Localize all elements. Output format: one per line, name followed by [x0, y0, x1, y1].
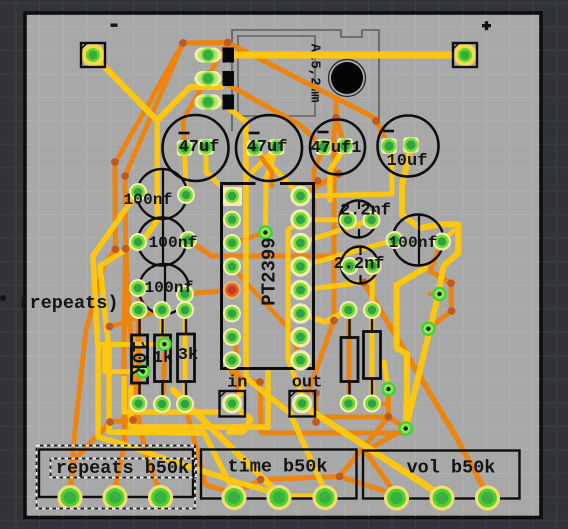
- wire orange inside IC pin4-pin9: [232, 267, 301, 361]
- potentiometer VR3 pad 3: [475, 485, 500, 510]
- junction: [314, 177, 322, 185]
- resistor R1 pad bottom: [130, 395, 148, 413]
- IC U1 pin 15: [290, 209, 311, 230]
- svg-text:100nf: 100nf: [148, 234, 197, 252]
- minus label: [111, 24, 118, 27]
- svg-text:47uf: 47uf: [179, 138, 220, 157]
- wire yellow C3 pad2 down: [330, 147, 345, 200]
- capacitor F1 (100nf) body: [137, 169, 187, 219]
- junction: [335, 170, 343, 178]
- wire yellow jack pin1 to + pad: [208, 52, 465, 59]
- junction: [121, 172, 129, 180]
- resistor R3 pad bottom: [176, 395, 194, 413]
- IC U1 pin 1: [223, 187, 241, 205]
- potentiometer VR1 pad 3: [148, 485, 173, 510]
- wire yellow to via on R1: [105, 345, 143, 372]
- resistor R1 pad top: [130, 301, 148, 319]
- junction: [224, 39, 232, 47]
- junction: [112, 246, 120, 254]
- wire yellow out pad to vol pad 2: [302, 405, 442, 496]
- C1 47uf pad -: [177, 140, 193, 156]
- junction: [336, 473, 344, 481]
- via A: [432, 287, 447, 302]
- via on R2: [157, 337, 172, 352]
- svg-text:47uf: 47uf: [247, 138, 288, 157]
- IC U1 pin 9: [290, 350, 311, 371]
- junction: [448, 307, 456, 315]
- junction: [106, 418, 114, 426]
- svg-text:10uf: 10uf: [387, 152, 428, 171]
- junction: [332, 114, 340, 122]
- wire yellow under R5: [370, 310, 375, 404]
- svg-text:PT2399: PT2399: [259, 237, 281, 305]
- potentiometer VR2 pad 1: [221, 485, 246, 510]
- IC U1 pin 7: [223, 328, 241, 346]
- DC jack pad 2: [195, 71, 222, 86]
- wire yellow to time pad 3: [246, 378, 325, 491]
- resistor R2 leads: [161, 310, 163, 335]
- svg-text:vol b50k: vol b50k: [407, 458, 496, 479]
- wire yellow IC pin15 to Z1 pad1: [301, 217, 349, 223]
- wire yellow 10uf loop around F4 to via D: [402, 147, 458, 429]
- C3 47uf pad +: [337, 138, 353, 154]
- wire orange jack to 10uf C4: [228, 43, 389, 148]
- resistor R5 leads: [371, 310, 373, 332]
- wire orange IC pin16 up right: [301, 174, 339, 196]
- resistor R5 pad top: [363, 301, 381, 319]
- wire yellow IC pin13 to F4 pad1: [301, 240, 395, 267]
- op-amp / IC U1 PT2399 outline: [222, 184, 314, 369]
- svg-text:2.2nf: 2.2nf: [340, 202, 391, 221]
- svg-text:47uf1: 47uf1: [310, 139, 361, 158]
- resistor R3 leads: [185, 310, 187, 334]
- capacitor C2 (47uf) body: [236, 115, 302, 181]
- wire yellow F4 stub: [442, 231, 453, 242]
- capacitor C1 (47uf) body: [163, 115, 229, 181]
- F2 100nf pad 2: [179, 231, 197, 249]
- junction: [312, 389, 320, 397]
- wire yellow C1 to IC pin1: [206, 148, 232, 196]
- via C: [381, 382, 396, 397]
- svg-text:100nf: 100nf: [144, 279, 193, 297]
- resistor R2 body: [155, 335, 171, 382]
- via on R1: [136, 364, 151, 379]
- DC jack barrel hole: [329, 60, 366, 97]
- selection marquee around VR1: [37, 446, 197, 509]
- junction: [111, 158, 119, 166]
- IC U1 pin 4: [223, 258, 241, 276]
- capacitor F4 pad 1: [386, 231, 404, 249]
- resistor R5 pad bottom: [363, 395, 381, 413]
- wire orange stub to via A: [430, 292, 440, 297]
- wire yellow C2 pad2 join vertical: [248, 148, 277, 176]
- wire yellow jack pin2 to - pad: [93, 55, 221, 121]
- wire orange left bus 2 to repeats pad 2: [115, 43, 183, 494]
- resistor R3 body: [178, 334, 195, 382]
- IC U1 pin 8: [223, 351, 241, 369]
- wire yellow to 100nf F2: [138, 121, 158, 243]
- wire orange stub right of out pad: [314, 393, 319, 422]
- svg-text:10k: 10k: [127, 341, 149, 375]
- wire yellow F1 left bus to time pad 2: [93, 192, 279, 495]
- IC U1 pin 3: [223, 234, 241, 252]
- wire yellow IC pin14 to Z1 pad2: [301, 220, 372, 243]
- capacitor Z1 pad 1: [339, 211, 357, 229]
- svg-text:3k: 3k: [178, 346, 198, 365]
- junction: [447, 279, 455, 287]
- wire yellow to time pad 2: [173, 390, 279, 494]
- junction: [257, 476, 265, 484]
- svg-text:time b50k: time b50k: [228, 457, 328, 478]
- svg-text:repeats b50k: repeats b50k: [56, 458, 189, 479]
- resistor R4 leads: [348, 310, 350, 338]
- wire orange C2 stub into IC: [255, 148, 273, 186]
- wire yellow to via on R2: [100, 342, 164, 347]
- plus label: [482, 24, 491, 27]
- wire yellow C2 pad1 to IC pin16: [255, 148, 301, 196]
- via B: [421, 321, 436, 336]
- wire yellow IC pin12 right: [301, 282, 364, 290]
- wire orange left bus 3 to repeats pad 3: [126, 249, 161, 494]
- wire orange junction down to time: [340, 417, 389, 477]
- svg-text:100nf: 100nf: [388, 234, 437, 252]
- wire yellow under R3: [183, 310, 188, 404]
- F1 100nf pad 1: [129, 183, 147, 201]
- F1 100nf pad 2: [177, 186, 195, 204]
- wire yellow Z2 pad2 to R5: [370, 266, 376, 310]
- wire orange via C to via D: [389, 389, 406, 429]
- IC U1 pin 12: [290, 280, 311, 301]
- C3 47uf pad -: [316, 139, 332, 155]
- F2 100nf pad 1: [129, 233, 147, 251]
- potentiometer VR3 pad 1: [384, 485, 409, 510]
- wire orange to vol pad 3: [364, 282, 488, 495]
- wire yellow under R2 top: [160, 306, 165, 346]
- DC jack pin 1: [223, 48, 235, 63]
- resistor R1 body: [132, 335, 148, 383]
- wire orange to time pad 1: [234, 480, 261, 494]
- wire yellow staircase to via D: [397, 268, 425, 429]
- wire yellow C1 to F1: [185, 148, 187, 193]
- potentiometer VR2 pad 2: [266, 485, 291, 510]
- wire yellow in pad elbow: [229, 406, 251, 432]
- wire orange top run: [183, 40, 228, 46]
- capacitor F2 (100nf) body: [138, 218, 186, 266]
- pad - supply: [82, 44, 105, 67]
- capacitor Z1 (2.2nf) body: [340, 201, 377, 238]
- F3 100nf pad 1: [129, 279, 147, 297]
- wire orange R5 pad to via C column: [372, 401, 389, 406]
- junction: [256, 378, 264, 386]
- C4 10uf pad -: [381, 138, 397, 154]
- junction: [372, 117, 380, 125]
- DC jack pad 3: [195, 95, 222, 110]
- wire orange IC pin8 to via D: [232, 360, 406, 433]
- resistor R3 pad top: [176, 301, 194, 319]
- wire orange left bus 1 to repeats pad 1: [70, 43, 183, 494]
- capacitor F3 (100nf) body: [139, 264, 189, 314]
- IC U1 pin1 marker: [223, 187, 242, 206]
- capacitor Z2 pad 2: [364, 257, 382, 275]
- IC U1 pin 13: [290, 256, 311, 277]
- resistor R4 body: [341, 338, 358, 382]
- C2 47uf pad +: [269, 139, 285, 155]
- wire orange long vertical to out pad: [306, 118, 336, 398]
- wire orange under R1: [136, 300, 141, 404]
- IC U1 pin 5 (highlighted): [223, 281, 241, 299]
- potentiometer VR1 repeats outline: [39, 450, 193, 498]
- wire orange via to IC pin 3: [232, 233, 265, 244]
- node label (repeats): [0, 295, 6, 301]
- junction: [106, 323, 114, 331]
- wire orange out pad to junction: [306, 408, 389, 417]
- svg-text:1k: 1k: [153, 349, 173, 368]
- wire yellow C2 to via: [265, 148, 276, 233]
- wire orange R2 pad to left bus: [110, 310, 162, 327]
- C1 47uf pad +: [198, 139, 214, 155]
- wire orange under R4: [347, 310, 352, 404]
- junction: [129, 416, 137, 424]
- wire orange 100nf F2 to 2.2nf Z2: [188, 240, 350, 266]
- junction: [122, 245, 130, 253]
- wire orange jack pin2 to 47uf C3: [225, 83, 324, 148]
- potentiometer VR1 pad 2: [102, 485, 127, 510]
- via inside IC: [258, 225, 273, 240]
- wire orange 100nf F4 loop to via B: [428, 242, 451, 329]
- wire orange C3 pad1 down IC edge: [314, 148, 324, 255]
- IC U1 pin 10: [290, 327, 311, 348]
- resistor R1 leads: [138, 310, 140, 335]
- wire orange under R2 bottom: [161, 344, 167, 404]
- svg-text:out: out: [292, 374, 323, 393]
- potentiometer VR2 time outline: [201, 450, 357, 499]
- DC jack pad 1: [195, 48, 222, 63]
- wire yellow via C stub up: [384, 362, 389, 389]
- resistor R4 pad bottom: [340, 395, 358, 413]
- potentiometer VR3 pad 2: [429, 485, 454, 510]
- IC U1 pin 16: [290, 186, 311, 207]
- IC U1 pin 11: [290, 303, 311, 324]
- wire yellow IC pin16 to C4: [301, 147, 393, 196]
- pad + supply: [454, 44, 477, 67]
- junction: [330, 317, 338, 325]
- via D: [398, 421, 413, 436]
- wire orange R3 to time pad 1: [185, 404, 234, 493]
- wire orange R1 to repeats pad 1: [70, 404, 139, 495]
- resistor R2 pad top: [153, 301, 171, 319]
- wire orange branch to C3 pad 2: [336, 98, 345, 147]
- DC jack pin 2: [223, 71, 235, 86]
- capacitor Z1 pad 2: [363, 211, 381, 229]
- capacitor F4 (100nf) body: [393, 215, 444, 266]
- wire orange F3 to IC pin 5: [185, 290, 232, 294]
- wire orange via D to vol pad 1: [365, 429, 406, 496]
- wire orange inside time pot: [261, 477, 340, 480]
- wire yellow jack pin3 through IC to in: [221, 102, 246, 402]
- wire yellow IC pin14 inside to out: [288, 220, 302, 401]
- junction: [312, 418, 320, 426]
- svg-text:(repeats): (repeats): [19, 293, 119, 314]
- in pad: [222, 394, 242, 414]
- capacitor C4 (10uf) body: [378, 116, 439, 177]
- capacitor Z2 pad 1: [341, 257, 359, 275]
- junction: [360, 279, 368, 287]
- junction: [385, 413, 393, 421]
- IC U1 pin 14: [290, 233, 311, 254]
- DC jack J1 outline: [232, 30, 379, 131]
- resistor R5 body: [364, 332, 381, 379]
- potentiometer VR1 pad 1: [57, 485, 82, 510]
- IC U1 pin 6: [223, 305, 241, 323]
- wire orange IC pin7 to in pad: [232, 337, 237, 392]
- potentiometer VR3 vol outline: [363, 451, 520, 499]
- C2 47uf pad -: [247, 140, 262, 156]
- capacitor F4 pad 2: [433, 233, 451, 251]
- resistor R2 pad bottom: [153, 395, 171, 413]
- C4 10uf pad +: [403, 137, 419, 153]
- junction: [179, 39, 187, 47]
- svg-text:2.2nf: 2.2nf: [333, 255, 384, 274]
- potentiometer VR2 pad 3: [312, 485, 337, 510]
- capacitor Z2 (2.2nf) body: [341, 247, 378, 284]
- capacitor C3 (47uf) body: [310, 120, 365, 175]
- wire yellow to in pad: [124, 378, 219, 412]
- IC U1 pin 2: [223, 211, 241, 229]
- wire yellow F2 left bus to time pad 1: [100, 242, 234, 492]
- wire yellow U under IC: [131, 372, 268, 427]
- wire yellow IC pin11 to R4: [301, 310, 349, 322]
- DC jack pin 3: [223, 95, 235, 110]
- F3 100nf pad 2: [176, 285, 194, 303]
- svg-text:100nf: 100nf: [123, 191, 172, 209]
- wire orange jack to 47uf C1: [183, 43, 228, 149]
- wire yellow time pad2-pad3 link: [279, 494, 325, 498]
- out pad: [292, 394, 312, 414]
- resistor R4 pad top: [340, 301, 358, 319]
- svg-text:in: in: [227, 374, 247, 393]
- wire orange to vol pad 1: [340, 477, 397, 496]
